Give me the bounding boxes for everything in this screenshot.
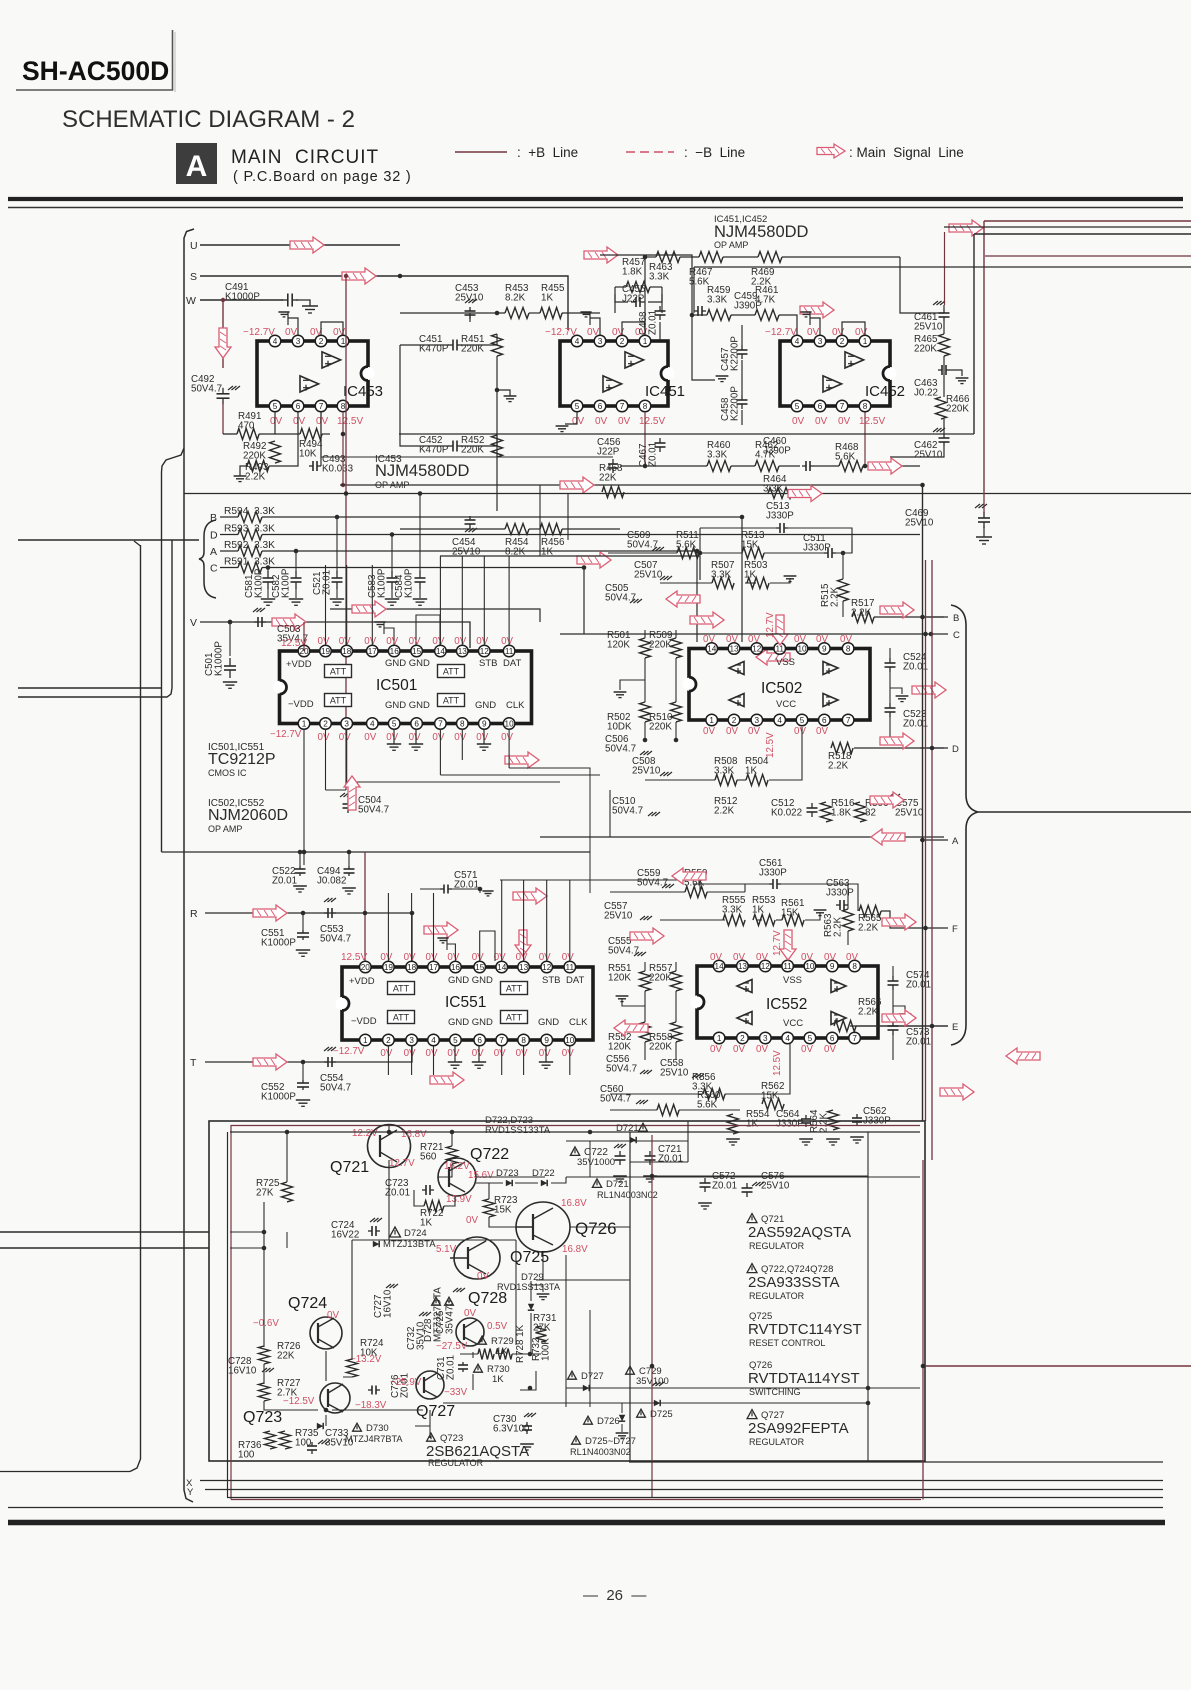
svg-text:: −B Line: : −B Line [684, 145, 745, 160]
svg-text:K1000P: K1000P [214, 641, 225, 676]
svg-text:5: 5 [808, 1034, 813, 1043]
svg-text:( P.C.Board on page 32 ): ( P.C.Board on page 32 ) [233, 169, 412, 185]
svg-text:D725~D727: D725~D727 [585, 1436, 636, 1447]
top right corner buses [949, 220, 983, 236]
svg-text:RVTDTC114YST: RVTDTC114YST [748, 1321, 862, 1338]
svg-text:12: 12 [542, 963, 552, 972]
wire y852 bus [162, 851, 591, 853]
svg-text:1K: 1K [541, 293, 553, 304]
pin 18 IC501 [341, 645, 353, 657]
svg-text:9: 9 [822, 644, 827, 653]
svg-text:7: 7 [438, 719, 443, 728]
svg-text:GND GND: GND GND [448, 1017, 493, 1028]
svg-text:3: 3 [296, 337, 301, 346]
svg-text:12.7V: 12.7V [389, 1158, 415, 1169]
svg-text:0V: 0V [595, 416, 608, 427]
svg-text:A: A [186, 150, 208, 183]
svg-text:−12.7V: −12.7V [765, 327, 797, 338]
signal arrow into IC451 [584, 247, 618, 263]
svg-text:K1000P: K1000P [261, 1092, 296, 1103]
svg-text:0V: 0V [432, 636, 444, 647]
svg-text:6: 6 [830, 1034, 835, 1043]
svg-text:7: 7 [852, 1034, 857, 1043]
svg-text:D724: D724 [404, 1228, 427, 1239]
signal arrow above IC501 [352, 601, 386, 617]
svg-text:SH-AC500D: SH-AC500D [22, 56, 169, 86]
svg-text:0V: 0V [327, 1310, 339, 1321]
svg-text:J330P: J330P [759, 868, 787, 879]
pin 8 IC552 [849, 960, 861, 972]
pin 3 IC452 [814, 335, 826, 347]
wires between IC451 and IC452 [600, 255, 692, 315]
pin 10 IC501 [503, 718, 515, 730]
svg-text:RVD1SS133TA: RVD1SS133TA [485, 1125, 551, 1136]
svg-text:CLK: CLK [506, 700, 525, 711]
svg-text:5.6K: 5.6K [697, 1100, 718, 1111]
transistor Q722 [438, 1158, 476, 1196]
ATT box IC501 top-left [325, 665, 352, 678]
svg-text:16V10: 16V10 [228, 1366, 257, 1377]
red arrow down x788 [780, 930, 796, 960]
svg-text:J330P: J330P [826, 888, 854, 899]
signal arrow to node B [880, 602, 914, 618]
op-amp triangles IC552 [737, 980, 752, 993]
svg-text:VCC: VCC [783, 1018, 803, 1029]
signal arrows lower mid [1006, 1048, 1040, 1064]
svg-text:19: 19 [384, 963, 394, 972]
svg-text:Q726: Q726 [575, 1219, 617, 1238]
svg-text:220K: 220K [649, 640, 672, 651]
svg-text:50V4.7: 50V4.7 [605, 744, 636, 755]
transistor Q728 [456, 1318, 484, 1346]
svg-text:F: F [952, 924, 958, 935]
ATT box IC551 bottom-left [388, 1011, 415, 1024]
svg-text:U: U [190, 240, 198, 252]
svg-text:11: 11 [566, 963, 575, 972]
pin 7 IC502 [842, 714, 854, 726]
svg-text:K100P: K100P [281, 568, 292, 598]
sub-box D721 cluster [687, 1121, 689, 1162]
svg-text:Z0.01: Z0.01 [648, 310, 659, 335]
svg-text:0V: 0V [733, 1044, 745, 1055]
svg-text:Z0.01: Z0.01 [906, 1037, 931, 1048]
svg-text:10: 10 [805, 962, 815, 971]
svg-text:0V: 0V [432, 732, 444, 743]
svg-text:50V4.7: 50V4.7 [320, 1083, 351, 1094]
IC502 NJM2060D block [689, 649, 870, 721]
pin 12 IC552 [760, 960, 772, 972]
svg-text:1: 1 [363, 1036, 368, 1045]
svg-text:0V: 0V [838, 416, 851, 427]
svg-text:D721: D721 [606, 1179, 629, 1190]
wire to node E [856, 1025, 948, 1027]
svg-text:2.2K: 2.2K [858, 923, 879, 934]
wire T [205, 1046, 412, 1062]
svg-text:10: 10 [797, 644, 807, 653]
signal arrow to E [882, 1010, 916, 1026]
pin 2 IC501 [320, 718, 332, 730]
pin 7 IC551 [496, 1034, 508, 1046]
svg-text:6: 6 [822, 716, 827, 725]
resistor R729 [478, 1336, 487, 1344]
pin 2 IC453 [315, 335, 327, 347]
svg-text:−12.7V: −12.7V [270, 729, 302, 740]
pin 4 IC453 [269, 335, 281, 347]
svg-text:Z0.01: Z0.01 [446, 1355, 457, 1380]
wire to node D [854, 747, 944, 749]
svg-text:2: 2 [732, 716, 737, 725]
transistor Q723 [320, 1383, 350, 1413]
svg-text:DAT: DAT [503, 658, 521, 669]
svg-text:0V: 0V [339, 732, 351, 743]
svg-text:: Main Signal Line: : Main Signal Line [849, 145, 964, 160]
svg-text:C: C [210, 563, 218, 575]
svg-text:Q721: Q721 [330, 1159, 369, 1176]
svg-text:IC551: IC551 [445, 994, 486, 1011]
pin 11 IC501 [503, 645, 515, 657]
svg-text:17: 17 [368, 647, 378, 656]
svg-text:50V4.7: 50V4.7 [320, 934, 351, 945]
svg-text:0V: 0V [501, 636, 513, 647]
svg-text:J330P: J330P [776, 1119, 804, 1130]
capacitor C722 [570, 1147, 579, 1156]
pin 15 IC551 [474, 961, 486, 973]
svg-text:2SA933SSTA: 2SA933SSTA [748, 1274, 839, 1291]
svg-text:J0.22: J0.22 [914, 388, 938, 399]
wire long bus y485 [340, 484, 923, 486]
svg-text:4: 4 [777, 716, 782, 725]
svg-text:CMOS IC: CMOS IC [208, 768, 247, 778]
svg-text:35V1000: 35V1000 [577, 1157, 615, 1168]
wire V [200, 622, 470, 648]
svg-text:0V: 0V [539, 952, 551, 963]
svg-text:STB: STB [542, 975, 560, 986]
pin 4 IC451 [571, 335, 583, 347]
svg-text:50V4.7: 50V4.7 [612, 806, 643, 817]
svg-text:0V: 0V [516, 1048, 528, 1059]
wires IC501 pins down [303, 729, 305, 865]
svg-text:−12.7V: −12.7V [333, 1046, 365, 1057]
svg-text:K100P: K100P [404, 568, 415, 598]
pin 13 IC552 [737, 960, 749, 972]
svg-text:0V: 0V [726, 726, 738, 737]
signal arrow on S [342, 268, 376, 284]
svg-text:MAIN CIRCUIT: MAIN CIRCUIT [231, 147, 379, 168]
svg-text:Q728: Q728 [468, 1290, 507, 1307]
svg-text:0V: 0V [794, 634, 806, 645]
pin 8 IC502 [842, 643, 854, 655]
pin 9 IC501 [479, 718, 491, 730]
svg-text:35V10: 35V10 [325, 1438, 354, 1449]
svg-text:4: 4 [370, 719, 375, 728]
svg-text:0V: 0V [612, 327, 625, 338]
pin 20 IC551 [360, 961, 372, 973]
ground loop above IC501 [384, 628, 394, 645]
svg-text:0V: 0V [494, 1048, 506, 1059]
pin 18 IC551 [406, 961, 418, 973]
pin 1 IC453 [337, 335, 349, 347]
svg-text:50V4.7: 50V4.7 [358, 805, 389, 816]
ATT box IC501 top-right [438, 665, 465, 678]
wire C463 ground [950, 370, 962, 376]
signal arrow up x352 [344, 776, 360, 810]
signal arrow on A wire [871, 829, 905, 845]
svg-text:0V: 0V [464, 1308, 476, 1319]
svg-text:82: 82 [865, 808, 876, 819]
svg-text:A: A [952, 836, 959, 847]
svg-text:5: 5 [575, 402, 580, 411]
svg-text:27K: 27K [256, 1188, 274, 1199]
right vertical buses [922, 485, 924, 1121]
svg-text:25V10: 25V10 [632, 766, 661, 777]
pin 5 IC451 [571, 400, 583, 412]
diode D725 [637, 1409, 646, 1417]
svg-text:4: 4 [575, 337, 580, 346]
svg-text:STB: STB [479, 658, 497, 669]
pin 14 IC502 [706, 643, 718, 655]
svg-text:220K: 220K [946, 404, 969, 415]
ATT box IC501 bottom-left [325, 694, 352, 707]
svg-text:0V: 0V [562, 1048, 574, 1059]
svg-text:— 26 —: — 26 — [583, 1587, 646, 1604]
svg-text:100: 100 [295, 1438, 312, 1449]
pin 5 IC453 [269, 400, 281, 412]
left arrow mid [666, 591, 700, 607]
svg-text:0V: 0V [333, 327, 346, 338]
red vertical x652 [651, 1135, 653, 1497]
svg-text:0V: 0V [364, 636, 376, 647]
svg-text:0.5V: 0.5V [487, 1321, 508, 1332]
pin 3 IC451 [594, 335, 606, 347]
svg-text:5: 5 [392, 719, 397, 728]
svg-text:J22P: J22P [597, 447, 620, 458]
wire top resistor row [469, 313, 471, 322]
svg-text:0V: 0V [426, 952, 438, 963]
pin 13 IC501 [457, 645, 469, 657]
svg-text:0V: 0V [710, 952, 722, 963]
svg-text:IC501: IC501 [376, 677, 417, 694]
wire left vertical bus x140 [130, 545, 141, 1472]
svg-text:RL1N4003N02: RL1N4003N02 [570, 1447, 631, 1457]
svg-text:ATT: ATT [506, 1013, 523, 1023]
svg-text:5.6K: 5.6K [835, 452, 856, 463]
wire long bus y493 [184, 493, 1191, 495]
wire node D [220, 534, 238, 536]
svg-text:V: V [190, 617, 197, 629]
IC552 NJM2060D block [697, 966, 878, 1038]
svg-text:50V4.7: 50V4.7 [627, 540, 658, 551]
svg-text:: +B Line: : +B Line [517, 145, 578, 160]
svg-text:0V: 0V [447, 952, 459, 963]
svg-text:15K: 15K [494, 1205, 512, 1216]
junction dots [398, 274, 403, 279]
svg-text:−12.7V: −12.7V [545, 327, 577, 338]
svg-text:220K: 220K [649, 1042, 672, 1053]
svg-text:7: 7 [620, 402, 625, 411]
signal arrow y493 [788, 486, 822, 502]
svg-text:15: 15 [412, 647, 422, 656]
pin 6 IC552 [826, 1032, 838, 1044]
pin 6 IC452 [814, 400, 826, 412]
top double rule [8, 197, 1183, 201]
op-amp triangle IC453b [300, 376, 319, 392]
svg-text:0V: 0V [404, 1048, 416, 1059]
pin 3 IC551 [406, 1034, 418, 1046]
pin 6 IC551 [474, 1034, 486, 1046]
resistor R730 [474, 1364, 483, 1372]
wire y457 pin7 route [321, 412, 613, 457]
svg-text:3.3K: 3.3K [707, 450, 728, 461]
svg-text:2.2K: 2.2K [819, 1112, 830, 1133]
svg-text:SCHEMATIC DIAGRAM - 2: SCHEMATIC DIAGRAM - 2 [62, 106, 355, 133]
wire U [200, 244, 400, 246]
svg-text:0V: 0V [476, 732, 488, 743]
pin 4 IC501 [367, 718, 379, 730]
svg-text:D726: D726 [597, 1416, 620, 1427]
svg-text:0V: 0V [539, 1048, 551, 1059]
pin 1 IC502 [706, 714, 718, 726]
svg-text:0V: 0V [703, 726, 715, 737]
svg-text:16: 16 [390, 647, 400, 656]
brace tip line [978, 811, 1191, 813]
power wire 12.5V to IC551 pin20 [364, 852, 366, 961]
svg-text:7: 7 [499, 1036, 504, 1045]
wire y556 upper mid [440, 556, 700, 580]
wire R [205, 913, 412, 961]
pin 14 IC501 [435, 645, 447, 657]
svg-text:Z0.01: Z0.01 [906, 980, 931, 991]
svg-text:RVTDTA114YST: RVTDTA114YST [748, 1370, 860, 1387]
svg-text:ATT: ATT [506, 984, 523, 994]
svg-text:1: 1 [863, 337, 868, 346]
bottom thick rule [8, 1520, 1165, 1526]
svg-text:0V: 0V [794, 726, 806, 737]
parts list Q722 [747, 1264, 757, 1273]
wire left vertical bus x161 [162, 448, 185, 852]
pin 16 IC501 [388, 645, 400, 657]
capacitor C492 [222, 300, 224, 368]
label D721 RL1N4003N02 [592, 1179, 601, 1188]
wire S [200, 276, 568, 330]
svg-text:0V: 0V [792, 416, 805, 427]
pin 1 IC451 [639, 335, 651, 347]
pin 1 IC501 [298, 718, 310, 730]
svg-text:NJM4580DD: NJM4580DD [714, 223, 809, 241]
pin 11 IC502 [774, 643, 786, 655]
wire y880 lower mid [500, 880, 700, 892]
svg-text:18: 18 [342, 647, 352, 656]
svg-text:−18.3V: −18.3V [355, 1400, 387, 1411]
svg-text:OP AMP: OP AMP [714, 240, 748, 250]
additional bottom box wires [455, 1239, 516, 1241]
pin 11 IC552 [782, 960, 794, 972]
svg-text:25V10: 25V10 [761, 1181, 790, 1192]
pin 5 IC552 [804, 1032, 816, 1044]
svg-text:11: 11 [783, 962, 792, 971]
svg-text:0V: 0V [494, 952, 506, 963]
ground loop above IC551 [447, 944, 455, 961]
ground at IC451 pin5 [565, 412, 577, 424]
svg-text:0V: 0V [472, 952, 484, 963]
wires R501 network [644, 630, 646, 638]
svg-text:0V: 0V [587, 327, 600, 338]
pin 7 IC452 [836, 400, 848, 412]
svg-text:120K: 120K [607, 640, 630, 651]
svg-text:11: 11 [505, 647, 514, 656]
pin 13 IC551 [518, 961, 530, 973]
wires IC501 pins up [325, 565, 327, 645]
svg-text:0V: 0V [703, 634, 715, 645]
transistor Q725 [454, 1237, 500, 1279]
svg-text:0V: 0V [846, 952, 858, 963]
svg-text:−13.2V: −13.2V [350, 1354, 382, 1365]
svg-text:1K: 1K [746, 1119, 758, 1130]
svg-text:16V22: 16V22 [331, 1230, 359, 1241]
svg-text:100K: 100K [541, 1338, 552, 1361]
svg-text:22K: 22K [599, 473, 617, 484]
pin 5 IC452 [791, 400, 803, 412]
svg-text:120K: 120K [608, 973, 631, 984]
pin 9 IC552 [826, 960, 838, 972]
svg-text:19: 19 [321, 647, 331, 656]
svg-text:8: 8 [460, 719, 465, 728]
pin 8 IC501 [457, 718, 469, 730]
svg-text:0V: 0V [855, 327, 868, 338]
svg-text:13.9V: 13.9V [446, 1194, 472, 1205]
svg-text:0V: 0V [807, 327, 820, 338]
pin 1 IC552 [713, 1032, 725, 1044]
svg-text:IC502: IC502 [761, 680, 802, 697]
pin 6 IC451 [594, 400, 606, 412]
svg-text:16.2V: 16.2V [444, 1161, 470, 1172]
op-amp IC452 block [780, 341, 890, 406]
svg-text:13: 13 [738, 962, 748, 971]
bottom section wires [230, 1131, 920, 1133]
svg-text:0V: 0V [710, 1044, 722, 1055]
svg-text:IC552: IC552 [766, 996, 807, 1013]
pin 10 IC551 [564, 1034, 576, 1046]
signal arrow on V [272, 614, 306, 630]
svg-text:220K: 220K [649, 973, 672, 984]
svg-text:13: 13 [729, 644, 739, 653]
svg-text:6: 6 [414, 719, 419, 728]
pin 3 IC502 [751, 714, 763, 726]
svg-text:12: 12 [761, 962, 771, 971]
wire bottom mid row [609, 790, 611, 837]
svg-text:5: 5 [800, 716, 805, 725]
svg-text:8: 8 [521, 1036, 526, 1045]
svg-text:16: 16 [451, 963, 461, 972]
svg-text:2.2K: 2.2K [858, 1007, 879, 1018]
svg-text:0V: 0V [316, 416, 329, 427]
svg-text:16V10: 16V10 [383, 1289, 394, 1318]
svg-text:16.8V: 16.8V [562, 1244, 588, 1255]
svg-text:3: 3 [409, 1036, 414, 1045]
svg-text:J330P: J330P [766, 511, 794, 522]
wire D row [262, 534, 920, 536]
grounds under IC551 [448, 1061, 462, 1063]
svg-text:17: 17 [429, 963, 439, 972]
inner partition [629, 1132, 631, 1461]
svg-text:220K: 220K [914, 344, 937, 355]
svg-text:5.6K: 5.6K [689, 277, 710, 288]
pin 8 IC452 [859, 400, 871, 412]
svg-text:0V: 0V [426, 1048, 438, 1059]
svg-text:Q724: Q724 [288, 1295, 327, 1312]
svg-text:J330P: J330P [803, 543, 831, 554]
signal arrow x920 y770 [870, 792, 904, 808]
svg-text:12.7V: 12.7V [772, 930, 783, 956]
